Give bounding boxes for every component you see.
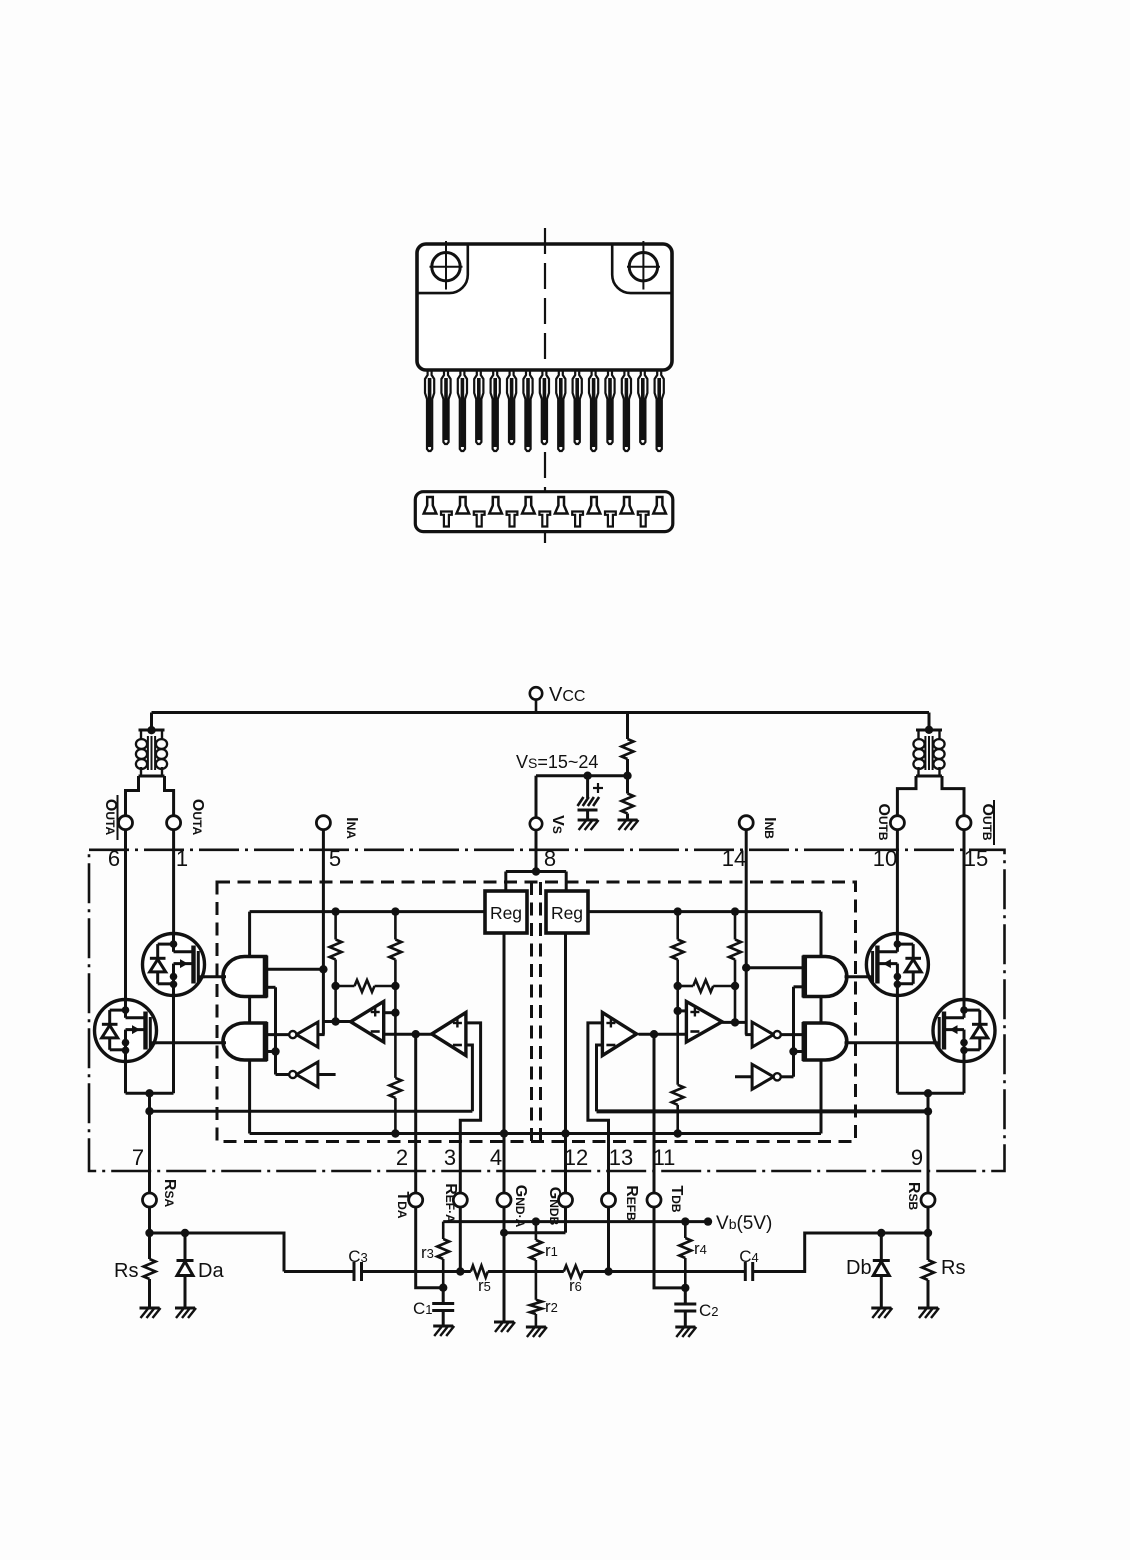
wire pin1 to M1 drain — [172, 830, 175, 934]
ground (GNDA) — [494, 1322, 515, 1332]
inverter G1 — [296, 1022, 318, 1047]
wire timing line (right) to Db/Rs — [753, 1233, 928, 1272]
wire RSB external — [924, 1207, 932, 1260]
svg-text:4: 4 — [490, 1145, 502, 1170]
wire A2 input 2 — [266, 1050, 276, 1053]
diode Da — [177, 1229, 194, 1308]
svg-text:7: 7 — [132, 1145, 144, 1170]
wire internal ground rail — [250, 1129, 821, 1137]
terminal INB (pin 14) — [739, 816, 753, 830]
comparator CP2 — [432, 1013, 466, 1056]
package pin 10 (side view) — [573, 370, 582, 444]
wire Reg U1 to GNDA — [500, 933, 508, 1237]
terminal TDA (pin 2) — [409, 1193, 423, 1207]
diode Db — [873, 1229, 890, 1308]
wire G3 input stub — [745, 1033, 752, 1036]
wire to Da and C3 — [150, 1233, 285, 1272]
wire TDB (pin11) — [653, 1034, 656, 1193]
wire M2 source down — [124, 1061, 127, 1093]
terminal GNDB (pin 12) — [559, 1193, 573, 1207]
resistor divider upper (Vs supply) — [622, 713, 634, 776]
resistor Rs (left) — [144, 1259, 156, 1308]
svg-text:15: 15 — [964, 846, 988, 871]
transformer TB — [913, 713, 944, 777]
package pin 14 (side view) — [638, 370, 647, 444]
package pin 2 (side view) — [441, 370, 450, 444]
wire timing line (mid-left) — [362, 1267, 471, 1275]
ground (Da) — [175, 1308, 196, 1318]
wire G2 input (from bias 1) — [318, 1073, 336, 1076]
wire CP1 output — [323, 1017, 350, 1025]
bottom view pin 8 — [539, 512, 550, 527]
terminal TDB (pin 11) — [647, 1193, 661, 1207]
resistor (right lower) — [672, 1085, 684, 1134]
resistor r4 — [679, 1222, 691, 1293]
wire TDB drop — [654, 1207, 685, 1288]
outer package boundary (chain line) — [89, 850, 1005, 1171]
bottom view pin 9 — [555, 497, 568, 514]
svg-text:r2: r2 — [545, 1297, 558, 1316]
svg-text:INB: INB — [761, 817, 778, 839]
wire internal supply rail B — [588, 907, 821, 915]
svg-text:11: 11 — [653, 1145, 676, 1170]
package pin 6 (side view) — [507, 370, 516, 444]
wire transformer TB right lead to pin 15 — [942, 776, 964, 816]
svg-text:12: 12 — [564, 1145, 588, 1170]
wire A2 input 1 (from inverter) — [266, 1033, 290, 1036]
svg-text:OUTA: OUTA — [189, 799, 206, 836]
ground (Rs right) — [918, 1308, 939, 1318]
wire CP3 output — [722, 1018, 746, 1026]
svg-text:REFB: REFB — [623, 1185, 640, 1221]
corner pad line left — [417, 244, 468, 293]
svg-text:3: 3 — [444, 1145, 456, 1170]
package pin 9 (side view) — [556, 370, 565, 451]
wire A4 output to M4 gate — [845, 1041, 940, 1044]
svg-text:Da: Da — [198, 1260, 224, 1282]
wire G2 output — [276, 1073, 289, 1076]
and-gate A4 — [804, 1023, 847, 1060]
wire M1 source down — [172, 995, 175, 1093]
label OUTB-bar — [979, 800, 996, 845]
wire G4 output — [781, 1075, 793, 1078]
wire Vb bus — [443, 1217, 712, 1225]
MOSFET M3 — [866, 934, 928, 996]
wire RSB sense line — [597, 1109, 929, 1113]
package pin 7 (side view) — [523, 370, 532, 451]
wire RSA sense line — [150, 1110, 473, 1113]
wire transformer TB left lead to pin 10 — [897, 776, 916, 816]
wire supply drop B (through gates) — [820, 912, 823, 1134]
label OUTA-bar — [102, 795, 119, 840]
svg-text:13: 13 — [609, 1145, 633, 1170]
transformer TA — [136, 713, 167, 777]
svg-text:GNDB: GNDB — [546, 1187, 563, 1226]
wire GNDA to ground — [503, 1207, 506, 1322]
wire CP3 plus input — [674, 1007, 687, 1015]
regulator U2 — [546, 891, 588, 933]
wire TDA drop — [416, 1207, 444, 1288]
MOSFET M2 — [95, 1000, 157, 1062]
package pin 8 (side view) — [540, 370, 549, 444]
terminal REFA (pin 3) — [453, 1193, 467, 1207]
package pin 13 (side view) — [622, 370, 631, 451]
comparator CP3 — [686, 1002, 722, 1043]
dashed divider left — [530, 882, 533, 1142]
wire CP3 minus input (from CP4 out) — [639, 1030, 687, 1038]
inverter G4 — [752, 1064, 774, 1089]
wire M3 source down — [896, 995, 899, 1093]
resistor r6 — [564, 1266, 583, 1278]
wire RSB tap (pin 9) — [924, 1093, 932, 1193]
svg-text:r4: r4 — [694, 1239, 707, 1258]
bottom view pin 3 — [457, 497, 470, 514]
terminal GNDA (pin 4) — [497, 1193, 511, 1207]
comparator CP1 — [351, 1002, 384, 1043]
svg-text:C1: C1 — [413, 1299, 433, 1318]
wire CP1 minus input (from CP2 out) — [384, 1030, 432, 1038]
bottom view pin 12 — [605, 512, 616, 527]
MOSFET M1 — [143, 934, 205, 996]
wire CP2 plus to REFA — [460, 1023, 480, 1193]
wire INA (pin5) input — [319, 830, 327, 1035]
wire A3 output to M3 gate — [845, 975, 874, 978]
mounting hole right — [627, 241, 660, 290]
resistor (left bias 1) — [330, 912, 342, 1022]
svg-text:RSB: RSB — [905, 1182, 922, 1211]
ground (C1) — [433, 1326, 454, 1336]
svg-text:OUTA: OUTA — [102, 799, 119, 836]
svg-text:C3: C3 — [348, 1247, 368, 1266]
resistor (left feedback, horizontal) — [331, 980, 399, 992]
bottom view pin 5 — [489, 497, 502, 514]
svg-text:2: 2 — [396, 1145, 408, 1170]
svg-text:INA: INA — [343, 817, 360, 839]
capacitor C3 — [354, 1262, 362, 1281]
and-gate A1 — [223, 957, 266, 997]
Vcc rail wire — [152, 711, 930, 714]
wire transformer TA left lead to pin 6 — [126, 776, 139, 816]
capacitor C2 — [674, 1288, 696, 1327]
and-gate A2 — [223, 1023, 266, 1060]
bottom view outline — [415, 492, 673, 532]
mounting hole left — [430, 241, 463, 290]
resistor r2 — [530, 1300, 542, 1327]
ground (Rs left) — [140, 1308, 161, 1318]
wire CP4 minus to sense line — [597, 1045, 603, 1111]
wire timing line (mid-right) — [583, 1267, 746, 1275]
inverter G2 — [296, 1062, 318, 1087]
capacitor (electrolytic on Vs) — [578, 776, 604, 820]
svg-text:OUTB: OUTB — [875, 803, 892, 840]
wire CP2 minus to sense line — [466, 1045, 473, 1111]
wire Vs node — [536, 772, 632, 780]
resistor (right bias 2) — [672, 912, 684, 1085]
wire CP4 plus to REFB — [588, 1023, 609, 1193]
svg-text:Rs: Rs — [941, 1257, 965, 1279]
wire A1 input 1 (from INA) — [266, 968, 324, 971]
svg-text:r5: r5 — [478, 1276, 491, 1295]
wire Reg U2 to GNDB — [564, 933, 567, 1193]
wire pin8 to regulators — [506, 830, 566, 891]
wire TDA (pin2) — [414, 1034, 417, 1193]
package pin 11 (side view) — [589, 370, 598, 451]
svg-text:Reg: Reg — [551, 903, 583, 923]
ground (r2) — [526, 1327, 547, 1337]
terminal OUTA (pin 1) — [167, 816, 181, 830]
bottom view pin 15 — [653, 497, 666, 514]
package pin 5 (side view) — [491, 370, 500, 451]
wire internal supply rail A — [250, 907, 485, 915]
resistor Rs (right) — [922, 1260, 934, 1308]
terminal RSA (pin 7) — [143, 1193, 157, 1207]
wire REFB drop — [607, 1207, 610, 1272]
capacitor C4 — [745, 1262, 752, 1281]
bottom view pin 6 — [507, 512, 518, 527]
wire RSA tap (pin 7) — [145, 1093, 153, 1193]
svg-text:8: 8 — [544, 846, 556, 871]
terminal OUTB-bar (pin 15) — [957, 816, 971, 830]
bottom view pin 14 — [638, 512, 649, 527]
package pin 12 (side view) — [605, 370, 614, 444]
terminal INA (pin 5) — [316, 816, 330, 830]
wire G1 input stub — [318, 1033, 325, 1036]
wire CP1 plus input — [384, 1009, 400, 1017]
terminal OUTB (pin 10) — [890, 816, 904, 830]
resistor r3 — [437, 1222, 449, 1292]
svg-text:14: 14 — [722, 846, 746, 871]
package pin 1 (side view) — [425, 370, 434, 451]
ground (Db) — [871, 1308, 892, 1318]
ground (divider) — [618, 820, 639, 830]
svg-text:VS: VS — [549, 815, 566, 834]
svg-text:10: 10 — [873, 846, 897, 871]
bottom view pin 11 — [588, 497, 601, 514]
resistor divider lower — [622, 776, 634, 820]
wire INB (pin14) input — [742, 830, 750, 1035]
bottom view pin 7 — [522, 497, 535, 514]
svg-text:r6: r6 — [569, 1276, 582, 1295]
terminal REFB (pin 13) — [602, 1193, 616, 1207]
package pin 15 (side view) — [655, 370, 664, 451]
terminal RSB (pin 9) — [921, 1193, 935, 1207]
svg-text:Vb(5V): Vb(5V) — [716, 1213, 772, 1234]
wire A4 input 1 (from inverter) — [781, 1033, 805, 1036]
wire pin15 to M4 drain — [963, 830, 966, 1000]
svg-text:TDB: TDB — [668, 1185, 685, 1212]
corner pad line right — [612, 244, 672, 293]
svg-text:RSA: RSA — [161, 1179, 178, 1208]
svg-text:Reg: Reg — [490, 903, 522, 923]
resistor (right feedback, horizontal) — [674, 980, 740, 992]
wire G4 input (from bias 1) — [735, 1075, 752, 1078]
bottom view pin 10 — [572, 512, 583, 527]
wire M4 source down — [963, 1061, 966, 1093]
svg-text:TDA: TDA — [394, 1191, 411, 1218]
svg-text:C2: C2 — [699, 1301, 719, 1320]
svg-text:6: 6 — [108, 846, 120, 871]
bottom view pin 13 — [621, 497, 634, 514]
resistor r5 — [471, 1266, 488, 1278]
wire REFA drop — [459, 1207, 462, 1272]
wire source bus B — [897, 1089, 964, 1097]
IC internal dashed box — [217, 882, 856, 1142]
svg-text:VS=15~24: VS=15~24 — [516, 752, 598, 772]
svg-text:C4: C4 — [739, 1247, 759, 1266]
resistor (left lower) — [389, 1078, 401, 1134]
wire transformer TA right lead to pin 1 — [165, 776, 174, 816]
svg-text:1: 1 — [176, 846, 188, 871]
ground (capacitor) — [578, 820, 599, 830]
wire pin10 to M3 drain — [896, 830, 899, 934]
comparator CP4 — [602, 1013, 636, 1056]
MOSFET M4 — [933, 1000, 995, 1062]
and-gate A3 — [804, 957, 847, 997]
svg-text:Db: Db — [846, 1257, 872, 1279]
capacitor C1 — [432, 1288, 454, 1326]
inverter G3 — [752, 1022, 774, 1047]
svg-text:r3: r3 — [421, 1243, 434, 1262]
wire pin6 to M2 drain — [124, 830, 127, 1000]
svg-text:Rs: Rs — [114, 1260, 138, 1282]
package center line — [544, 228, 546, 366]
bottom view pin 2 — [441, 512, 452, 527]
wire supply drop A (through gates) — [248, 912, 251, 1134]
svg-text:REF·A: REF·A — [442, 1183, 459, 1223]
wire timing line (left) — [284, 1270, 354, 1273]
resistor (right bias 1) — [729, 912, 741, 1023]
terminal OUTA-bar (pin 6) — [119, 816, 133, 830]
terminal Vs (pin 8) — [530, 776, 542, 830]
wire A4 input 2 — [794, 1050, 805, 1053]
bottom view pin 4 — [474, 512, 485, 527]
wire A2 output to M2 gate — [151, 1041, 227, 1044]
bottom view pin 1 — [424, 497, 437, 514]
wire A1 output to M1 gate — [199, 975, 227, 978]
package body outline — [417, 244, 672, 370]
dashed divider right — [539, 882, 542, 1142]
package center line lower — [544, 452, 546, 543]
svg-text:5: 5 — [329, 846, 341, 871]
resistor r1 — [530, 1222, 542, 1300]
package pin 4 (side view) — [474, 370, 483, 444]
wire RSA external — [145, 1207, 153, 1259]
wire source bus A — [126, 1089, 174, 1097]
wire A1 input 2 — [266, 987, 280, 1074]
regulator U1 — [485, 891, 527, 933]
svg-text:r1: r1 — [545, 1241, 558, 1260]
ground (C2) — [675, 1327, 696, 1337]
wire timing line (center) — [488, 1270, 564, 1273]
svg-text:9: 9 — [911, 1145, 923, 1170]
svg-text:VCC: VCC — [549, 684, 585, 706]
wire A3 input 1 (from INB) — [746, 966, 804, 969]
wire GNDA-GNDB link — [504, 1207, 566, 1233]
package pin 3 (side view) — [458, 370, 467, 451]
Vcc terminal — [530, 687, 542, 712]
resistor (left bias 2) — [389, 912, 401, 1078]
wire A3 input 2 — [789, 987, 804, 1077]
